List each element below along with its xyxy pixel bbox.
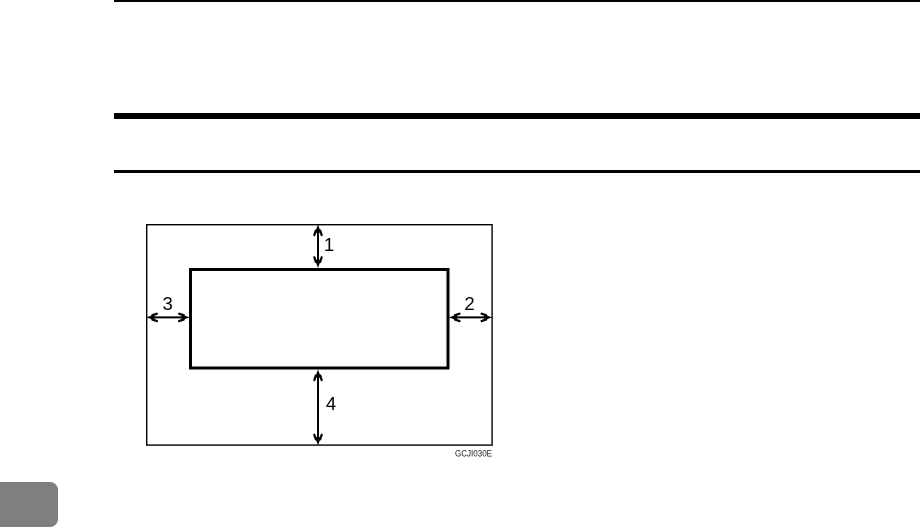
diagram <box>130 205 510 465</box>
arrow 1 (top vertical) <box>314 225 321 268</box>
arrow 3 (left horizontal) <box>146 314 189 321</box>
svg-text:4: 4 <box>326 393 336 414</box>
svg-text:3: 3 <box>162 293 172 314</box>
top thin rule <box>114 0 920 2</box>
gray page tab bottom-left <box>0 482 58 527</box>
outer rectangle <box>147 225 492 445</box>
arrow 2 (right horizontal) <box>449 314 492 321</box>
svg-text:2: 2 <box>464 293 474 314</box>
thick section bar <box>114 113 920 119</box>
inner rectangle <box>191 270 449 369</box>
svg-text:1: 1 <box>324 234 334 255</box>
svg-text:GCJI030E: GCJI030E <box>455 449 492 460</box>
arrow 4 (bottom vertical) <box>314 370 321 446</box>
medium rule <box>114 170 920 173</box>
